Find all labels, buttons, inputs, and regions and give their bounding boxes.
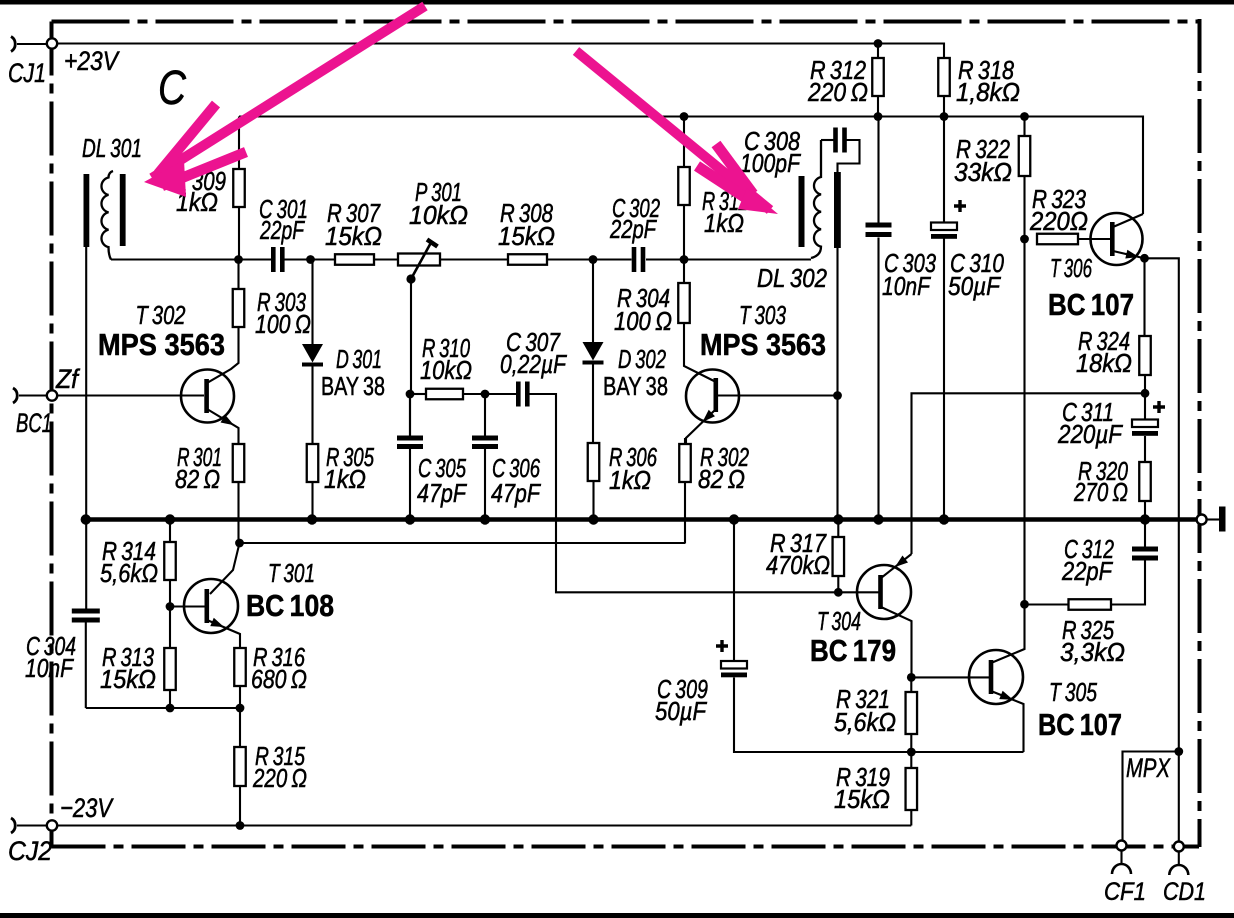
wire CJ1 stub [17, 43, 47, 45]
wire C307 to T304 base [530, 394, 880, 592]
svg-text:1,8kΩ: 1,8kΩ [956, 77, 1020, 107]
resistor R306 [588, 443, 600, 481]
svg-text:0,22µF: 0,22µF [500, 349, 568, 379]
svg-text:T 306: T 306 [1050, 253, 1092, 283]
resistor R313 [164, 648, 176, 690]
svg-text:BC 107: BC 107 [1048, 287, 1134, 322]
node bus/C306 [480, 514, 490, 524]
svg-text:10nF: 10nF [25, 653, 75, 683]
terminal CF1 mating arc [1112, 864, 1131, 874]
module frame bottom border [52, 845, 1200, 849]
annotation arrow 1 barb lower [162, 152, 246, 186]
resistor R301 [233, 444, 245, 482]
node bus/DL301-C304 [81, 514, 91, 524]
svg-text:15kΩ: 15kΩ [834, 784, 890, 814]
wire T306 emitter to R324 [1143, 258, 1145, 336]
svg-text:T 301: T 301 [268, 558, 315, 588]
svg-text:CD1: CD1 [1163, 878, 1206, 906]
coil DL302 right winding bar [834, 172, 841, 248]
resistor R310 [426, 389, 463, 400]
wire R313 bottom lead [169, 690, 171, 708]
svg-text:10kΩ: 10kΩ [420, 355, 472, 385]
wire R314 top lead [169, 520, 171, 543]
coil DL301 right core bar [120, 174, 126, 246]
wire base-return line C304/R313/R316 [86, 707, 240, 709]
node R325/T305 collector [1020, 600, 1029, 609]
node bus/R306 [588, 514, 598, 524]
node T303 collector / DL302 secondary [833, 391, 842, 400]
svg-text:BAY 38: BAY 38 [321, 371, 385, 401]
wire R319 bottom lead to -23V rail [910, 810, 912, 826]
wire C304 bottom lead [85, 623, 87, 709]
wire R316 bottom lead [239, 686, 241, 708]
resistor R312 [872, 58, 884, 96]
coil DL301 left winding bar [84, 174, 90, 247]
node R310/C306 [481, 390, 490, 399]
wire R310 row left [410, 393, 426, 395]
module frame right border [1198, 19, 1202, 847]
wire P301 wiper down to R310 node [410, 279, 411, 436]
node R316/R315 [236, 704, 245, 713]
svg-text:100pF: 100pF [740, 148, 802, 178]
wire C312 bottom to R325 wire [1111, 561, 1145, 605]
wire R324 bottom to node [1144, 375, 1146, 393]
wire R325 left lead [1025, 603, 1069, 605]
node R321/R319/emitter-return [907, 748, 916, 757]
resistor R316 [234, 648, 246, 686]
annotation arrow 2 head [738, 188, 778, 214]
node wiper/R310/C305 [406, 390, 415, 399]
node main/C301/R307/D301 [306, 255, 315, 264]
capacitor C305 [397, 436, 423, 450]
svg-text:1kΩ: 1kΩ [324, 464, 366, 494]
svg-text:82 Ω: 82 Ω [698, 464, 745, 494]
node R322/R323 [1020, 235, 1029, 244]
wire main signal line C302 to DL302 [646, 258, 811, 260]
svg-text:100 Ω: 100 Ω [614, 306, 672, 336]
svg-text:50µF: 50µF [948, 271, 1002, 301]
transistor T303 circle [686, 370, 739, 423]
module frame top border [52, 20, 1200, 24]
svg-text:D 301: D 301 [336, 344, 382, 374]
node bus/R320-C312 [1140, 514, 1150, 524]
module frame left border [50, 22, 54, 848]
resistor R308 [508, 254, 547, 265]
wire D302 anode from main wire [592, 260, 594, 343]
wire C308 left plate to DL302 winding top [821, 139, 834, 141]
annotation arrow 1 head [144, 160, 186, 197]
wire C309 bottom lead [734, 678, 1024, 753]
transistor T304 base bar [878, 575, 883, 609]
svg-text:470kΩ: 470kΩ [766, 550, 830, 580]
svg-text:220µF: 220µF [1057, 419, 1124, 449]
resistor R321 [906, 692, 918, 734]
wire R319 top lead [910, 752, 912, 768]
coil DL301 winding [101, 171, 113, 259]
terminal BC1 circle [47, 390, 57, 400]
transistor T303 emitter with arrow [686, 410, 715, 444]
wire MPX box outline [1123, 752, 1179, 842]
wire R310 to C306 node [463, 393, 516, 395]
wire DL302 secondary down to T303 collector node [836, 248, 838, 520]
terminal CJ2 circle [47, 820, 57, 830]
svg-text:220Ω: 220Ω [1029, 206, 1088, 236]
capacitor C302 [632, 247, 646, 272]
resistor R307 [335, 254, 374, 265]
capacitor C308 [833, 128, 847, 153]
svg-text:5,6kΩ: 5,6kΩ [100, 558, 158, 588]
wire R323 to T306 base [1078, 238, 1110, 240]
wire T301 collector diagonal [210, 543, 240, 594]
svg-text:47pF: 47pF [417, 478, 468, 508]
svg-text:680 Ω: 680 Ω [251, 664, 307, 694]
wire main signal line C301 to C302 [285, 258, 632, 260]
node rail116/R318 [940, 112, 949, 121]
wire T301 collector feed (R301/R302 emitters) [240, 542, 686, 544]
wire R304 top lead [683, 260, 685, 284]
svg-text:−23V: −23V [60, 793, 114, 823]
node bus/R314 [165, 514, 175, 524]
resistor R320 [1139, 462, 1151, 501]
potentiometer P301 wiper arrow [411, 240, 438, 280]
node R317/T304 base [834, 588, 843, 597]
wire CD1 stub [1178, 852, 1180, 865]
node bus/C310 [939, 514, 949, 524]
node rail116/R312 [874, 112, 883, 121]
svg-text:CJ1: CJ1 [8, 58, 46, 88]
node +23V/R312 junction [874, 39, 883, 48]
wire C310 column [943, 117, 945, 520]
svg-text:DL 302: DL 302 [757, 263, 827, 293]
capacitor C303 [866, 223, 892, 238]
resistor R315 [234, 747, 246, 786]
potentiometer P301 body [398, 254, 440, 266]
wire R311 top lead [683, 117, 685, 168]
coil DL302 winding [811, 140, 821, 258]
svg-text:10nF: 10nF [882, 271, 932, 301]
wire C312 top lead [1144, 520, 1146, 547]
resistor R325 [1069, 599, 1112, 610]
svg-text:BC1: BC1 [16, 408, 52, 438]
wire R318 bottom lead [943, 96, 945, 117]
wire R320 bottom to bus [1144, 501, 1146, 520]
wire C311 to R320 [1144, 436, 1146, 462]
wire C306 bottom lead [484, 449, 486, 520]
wire bus output stub [1207, 518, 1220, 520]
node T306 emitter junction [1140, 254, 1149, 263]
svg-text:T 304: T 304 [817, 606, 861, 636]
node main/C302/R311/R304 [680, 255, 689, 264]
wire C311 top lead [1144, 393, 1146, 419]
svg-text:C: C [158, 62, 186, 115]
bus common rail [84, 517, 1197, 522]
wire T303 collector to DL302 node [716, 394, 838, 396]
transistor T306 base bar [1110, 222, 1115, 256]
annotation arrow 2 barb upper [716, 144, 753, 194]
svg-text:50µF: 50µF [655, 696, 708, 726]
svg-text:T 302: T 302 [136, 300, 186, 330]
wire C305 top lead [409, 394, 411, 436]
wire D301 anode from main wire [311, 260, 313, 345]
svg-text:DL 301: DL 301 [82, 133, 142, 163]
wire T306 emitter to MPX (CD1) [1145, 258, 1179, 842]
svg-text:22pF: 22pF [609, 214, 657, 244]
terminal bus output circle [1197, 515, 1207, 525]
wire -23V rail [52, 824, 911, 826]
coil DL302 left core bar [799, 176, 805, 247]
capacitor C311 (electrolytic) [1132, 401, 1165, 436]
capacitor C310 (electrolytic) [931, 200, 966, 239]
wire R322 bottom lead [1023, 176, 1025, 239]
wire C308 right plate hook to DL302 bar [838, 140, 860, 172]
transistor T301 base bar [205, 589, 210, 623]
annotation arrow 1 barb upper [158, 104, 216, 174]
wire BC1 stub [19, 394, 47, 396]
transistor T304 emitter with arrow (PNP) [881, 554, 912, 578]
transistor T303 base bar [714, 378, 719, 412]
svg-text:15kΩ: 15kΩ [100, 664, 156, 694]
wire 116-rail from R309 top to T306 collector [239, 117, 1143, 215]
svg-text:22pF: 22pF [259, 215, 305, 245]
wire T302 collector to R303 [207, 327, 239, 383]
svg-text:MPS 3563: MPS 3563 [700, 327, 826, 362]
wire +23V rail from CJ1 to R318 top [52, 44, 944, 59]
capacitor C312 [1132, 547, 1158, 561]
svg-text:BAY 38: BAY 38 [603, 371, 668, 401]
node feedback R324/C311/T304-emitter [1141, 389, 1150, 398]
wire R306 bottom to bus [592, 481, 594, 520]
capacitor C304 [72, 609, 100, 623]
resistor R322 [1019, 136, 1031, 176]
node bus/R305 [307, 514, 317, 524]
wire R302 top lead [684, 438, 686, 444]
svg-text:15kΩ: 15kΩ [498, 221, 555, 251]
transistor T306 emitter with arrow [1113, 250, 1145, 262]
terminal CJ1 circle [47, 38, 57, 48]
svg-text:82 Ω: 82 Ω [175, 464, 220, 494]
transistor T301 emitter with arrow [207, 618, 240, 648]
terminal CF1 circle [1117, 841, 1127, 851]
svg-text:BC 107: BC 107 [1038, 707, 1122, 742]
transistor T304 circle [857, 565, 911, 619]
svg-text:+23V: +23V [64, 46, 121, 76]
svg-text:10kΩ: 10kΩ [409, 200, 468, 230]
wire C309 top lead from bus [733, 520, 735, 662]
wire CJ2 stub [17, 824, 47, 826]
wire R321 top lead [910, 677, 912, 692]
transistor T306 circle [1091, 213, 1143, 265]
wire R309 column [238, 117, 240, 260]
node R313 bottom [166, 704, 175, 713]
transistor T305 emitter with arrow [991, 691, 1024, 752]
wire DL301 left bar down to C304 column [85, 247, 87, 609]
node bus/R317 [833, 514, 843, 524]
resistor R309 [233, 169, 245, 207]
resistor R323 [1037, 234, 1078, 245]
svg-text:15kΩ: 15kΩ [325, 221, 382, 251]
transistor T301 circle [184, 579, 238, 633]
node R315/-23V rail [236, 821, 245, 830]
wire R315 top lead [239, 708, 241, 747]
resistor R317 [833, 537, 845, 576]
terminal CJ2 mating arc [11, 818, 15, 833]
wire R317 bottom lead [837, 576, 839, 592]
wire T305 collector up to R325 node [991, 604, 1025, 663]
node rail116/R311 [680, 112, 689, 121]
wire R304 bottom lead to T303 base [684, 323, 714, 381]
wire C306 top lead [484, 394, 486, 436]
wire R322 top lead [1023, 117, 1025, 137]
svg-text:CF1: CF1 [1104, 878, 1146, 906]
svg-text:1kΩ: 1kΩ [609, 465, 651, 495]
resistor R305 [307, 444, 319, 482]
svg-text:18kΩ: 18kΩ [1076, 348, 1132, 378]
bottom scan bar [0, 913, 1234, 918]
wire R322/R323 column down to T305 collector node [1023, 239, 1025, 604]
capacitor C306 [472, 436, 498, 450]
svg-text:MPS 3563: MPS 3563 [98, 327, 225, 362]
wire D301 cathode to R305 [311, 366, 313, 444]
node main/R309 [234, 255, 243, 264]
wire T304 collector down [881, 607, 912, 677]
wire T306 collector diagonal [1113, 214, 1143, 227]
resistor R319 [906, 768, 918, 810]
wire R311 bottom lead [683, 205, 685, 260]
capacitor C309 (electrolytic) [716, 640, 747, 677]
annotation arrow 2 barb lower [697, 166, 749, 200]
svg-text:1kΩ: 1kΩ [704, 208, 744, 238]
wire R312 top lead to +23V rail [877, 44, 879, 59]
annotation arrow 1 shaft [152, 6, 425, 178]
transistor T302 base bar [204, 379, 209, 413]
capacitor C301 [271, 247, 285, 272]
resistor R311 [678, 167, 690, 205]
wire T305 base [911, 676, 989, 678]
node bus/C303 [873, 514, 883, 524]
transistor T302 emitter with arrow [207, 409, 239, 444]
resistor R302 [679, 444, 691, 482]
transistor T302 circle [181, 370, 234, 423]
resistor R304 [678, 283, 690, 323]
svg-text:CJ2: CJ2 [8, 836, 52, 866]
resistor R314 [164, 542, 176, 580]
svg-text:22pF: 22pF [1061, 556, 1114, 586]
wire R302 bottom crossing bus to T301 collector wire [684, 482, 686, 544]
resistor R303 [233, 289, 245, 327]
node rail116/R322 [1020, 112, 1029, 121]
wire main signal line DL301 to C301 [111, 258, 271, 260]
wire R303 top lead [237, 260, 239, 290]
svg-text:D 302: D 302 [618, 344, 666, 374]
node R314/R313/T301 base [166, 602, 175, 611]
transistor T305 circle [969, 650, 1023, 704]
node bus/C305 [405, 514, 415, 524]
resistor R324 [1139, 336, 1151, 375]
wire R312 bottom lead [877, 96, 879, 117]
wire C305 bottom lead [409, 449, 411, 520]
svg-text:220 Ω: 220 Ω [807, 77, 868, 107]
node main/R308/C302/D302 [589, 255, 598, 264]
svg-text:47pF: 47pF [491, 478, 542, 508]
svg-text:T 303: T 303 [739, 300, 786, 330]
wire R317 top lead [837, 520, 839, 538]
svg-text:220 Ω: 220 Ω [252, 763, 307, 793]
svg-text:T 305: T 305 [1049, 677, 1097, 707]
svg-text:MPX: MPX [1126, 753, 1171, 783]
wire D302 cathode to R306 [592, 364, 594, 443]
terminal CD1 circle [1174, 842, 1184, 852]
wire T302 base from Zf terminal [57, 394, 204, 396]
resistor R318 [938, 58, 950, 96]
annotation arrow 2 shaft [576, 51, 770, 210]
wire feedback node to T304 emitter [912, 393, 1146, 554]
wire R314-R313 link [169, 580, 171, 648]
node T304 collector/T305 base/R321 [907, 673, 916, 682]
svg-text:BC 108: BC 108 [246, 588, 334, 623]
wire R305 bottom to bus [311, 482, 313, 520]
capacitor C307 [516, 382, 530, 407]
svg-text:5,6kΩ: 5,6kΩ [834, 707, 896, 737]
terminal CD1 mating arc [1169, 865, 1188, 875]
top scan bar [0, 0, 1234, 5]
svg-text:Zf: Zf [55, 364, 80, 394]
node MPX top-right corner [1174, 747, 1183, 756]
node P301 wiper joint [406, 274, 415, 283]
wire R321 bottom lead [910, 734, 912, 752]
diode D301 [302, 344, 323, 365]
transistor T305 base bar [989, 660, 994, 694]
wire R301 bottom crossing bus to T301 collector wire [237, 482, 239, 543]
svg-text:BC 179: BC 179 [810, 633, 896, 668]
node R301/T301 collector [235, 539, 244, 548]
wire C303 column [877, 117, 879, 520]
svg-text:3,3kΩ: 3,3kΩ [1060, 637, 1125, 667]
terminal bus output bar [1219, 507, 1226, 532]
terminal BC1 mating arc [13, 388, 17, 403]
terminal CJ1 mating arc [11, 37, 15, 52]
wire T301 base from divider [170, 605, 205, 607]
svg-text:33kΩ: 33kΩ [954, 157, 1012, 187]
node bus/C309 [729, 514, 739, 524]
wire R315 bottom lead [239, 786, 241, 826]
svg-text:100 Ω: 100 Ω [255, 309, 311, 339]
wire CF1 stub [1120, 851, 1122, 864]
diode D302 [583, 342, 604, 363]
svg-text:270 Ω: 270 Ω [1073, 477, 1128, 507]
